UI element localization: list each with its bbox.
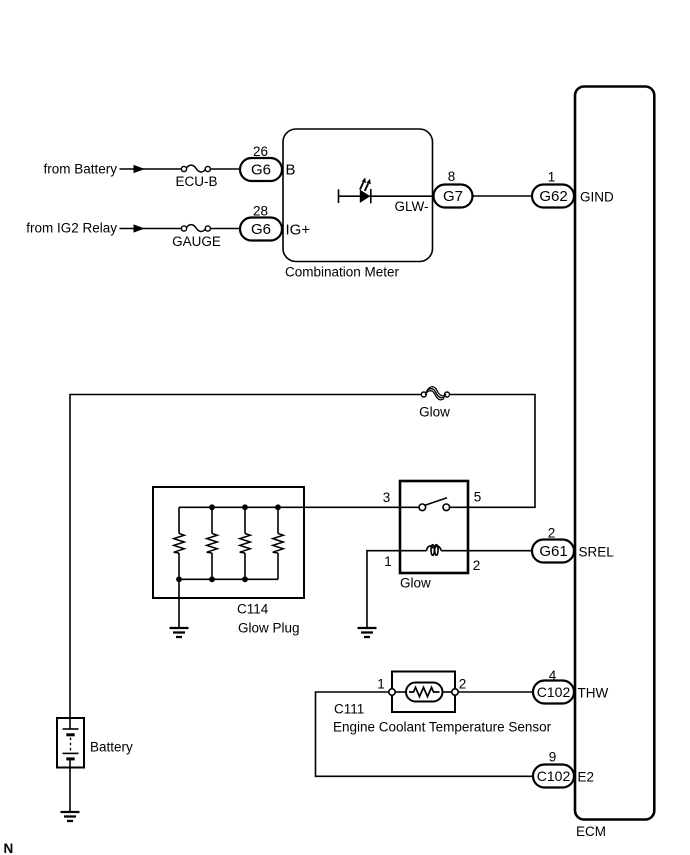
glow plug resistor 3 bbox=[240, 507, 251, 579]
glow plug box C114 bbox=[153, 487, 304, 598]
svg-text:2: 2 bbox=[473, 558, 481, 573]
connector G62 pin 1 bbox=[532, 185, 574, 208]
glow plug resistor 2 bbox=[207, 507, 218, 579]
connector C102 pin 4 bbox=[533, 681, 574, 704]
relay switch bbox=[400, 498, 468, 511]
wire from IG2 Relay lead with arrow bbox=[120, 224, 182, 232]
svg-text:G62: G62 bbox=[539, 188, 567, 205]
svg-text:2: 2 bbox=[548, 526, 556, 541]
wire fusible link to relay pin 5 bbox=[450, 395, 536, 508]
connector G61 pin 2 bbox=[532, 540, 574, 563]
svg-text:Engine Coolant Temperature Sen: Engine Coolant Temperature Sensor bbox=[333, 720, 552, 735]
svg-text:Combination Meter: Combination Meter bbox=[285, 265, 400, 280]
wire relay pin 2 to G61 bbox=[468, 550, 534, 552]
svg-text:G6: G6 bbox=[251, 162, 271, 179]
svg-text:Glow: Glow bbox=[419, 405, 450, 420]
thermistor element bbox=[389, 683, 458, 702]
junction dot bottom bus 2 bbox=[209, 576, 215, 582]
sensor box C111 bbox=[392, 672, 455, 713]
svg-text:SREL: SREL bbox=[579, 545, 615, 560]
glow plug resistor 4 bbox=[273, 507, 284, 579]
wire relay pin 1 to ground bbox=[367, 551, 400, 628]
svg-text:GAUGE: GAUGE bbox=[172, 234, 221, 249]
svg-text:GLW-: GLW- bbox=[394, 199, 428, 214]
svg-text:8: 8 bbox=[448, 169, 456, 184]
wire fuse to G6 pin 26 bbox=[210, 168, 241, 170]
ground battery bbox=[61, 812, 80, 821]
ground relay bbox=[358, 628, 377, 637]
svg-text:E2: E2 bbox=[578, 770, 595, 785]
ground glow plug bbox=[170, 628, 189, 637]
ECM box bbox=[575, 87, 654, 820]
svg-text:G61: G61 bbox=[539, 543, 567, 560]
svg-text:ECM: ECM bbox=[576, 824, 606, 839]
svg-text:Glow Plug: Glow Plug bbox=[238, 621, 300, 636]
svg-text:ECU-B: ECU-B bbox=[175, 174, 217, 189]
wire glow plug bus to relay pin 3 bbox=[179, 506, 400, 508]
junction dot top bus 2 bbox=[209, 504, 215, 510]
svg-text:C114: C114 bbox=[237, 602, 269, 617]
svg-text:3: 3 bbox=[383, 490, 391, 505]
svg-text:1: 1 bbox=[377, 677, 385, 692]
svg-text:1: 1 bbox=[384, 554, 392, 569]
relay coil bbox=[400, 545, 468, 556]
svg-text:28: 28 bbox=[253, 204, 268, 219]
svg-text:5: 5 bbox=[474, 490, 482, 505]
fusible link Glow bbox=[421, 387, 449, 400]
fuse ECU-B bbox=[181, 165, 210, 172]
svg-text:C102: C102 bbox=[537, 768, 571, 784]
junction dot bottom bus 1 bbox=[176, 576, 182, 582]
svg-text:Glow: Glow bbox=[400, 576, 431, 591]
svg-text:26: 26 bbox=[253, 144, 268, 159]
wire sensor pin 2 to THW bbox=[458, 691, 535, 693]
connector G6 pin 28 bbox=[240, 218, 282, 241]
svg-text:THW: THW bbox=[578, 686, 609, 701]
glow plug resistor 1 bbox=[174, 507, 185, 579]
svg-text:B: B bbox=[286, 162, 296, 179]
wire glow plug to ground bbox=[178, 579, 180, 627]
fuse GAUGE bbox=[181, 225, 210, 232]
glow relay box bbox=[400, 481, 468, 573]
svg-text:GIND: GIND bbox=[580, 190, 614, 205]
svg-text:C111: C111 bbox=[334, 702, 364, 717]
svg-text:Battery: Battery bbox=[90, 740, 133, 755]
connector G7 pin 8 bbox=[434, 185, 473, 208]
combination meter box bbox=[283, 129, 433, 262]
connector G6 pin 26 bbox=[240, 158, 282, 181]
junction dot top bus 4 bbox=[275, 504, 281, 510]
wire fuse to G6 pin 28 bbox=[210, 228, 241, 230]
svg-text:4: 4 bbox=[549, 668, 557, 683]
battery bbox=[57, 718, 84, 768]
junction dot bottom bus 3 bbox=[242, 576, 248, 582]
svg-text:from Battery: from Battery bbox=[43, 162, 117, 177]
connector C102 pin 9 bbox=[533, 765, 574, 788]
glow plug bottom bus bbox=[179, 578, 278, 580]
svg-text:IG+: IG+ bbox=[286, 222, 311, 239]
svg-text:9: 9 bbox=[549, 750, 557, 765]
svg-text:2: 2 bbox=[459, 677, 467, 692]
wire G7 to G62 bbox=[473, 195, 535, 197]
svg-text:C102: C102 bbox=[537, 684, 571, 700]
wire sensor pin 1 to E2 bbox=[316, 692, 535, 776]
svg-text:1: 1 bbox=[548, 169, 556, 184]
svg-text:G6: G6 bbox=[251, 221, 271, 238]
svg-text:from IG2 Relay: from IG2 Relay bbox=[26, 220, 117, 235]
wire from Battery lead with arrow bbox=[120, 165, 182, 173]
LED indicator lamp bbox=[339, 178, 433, 204]
svg-text:N: N bbox=[4, 841, 14, 855]
wire battery to ground bbox=[69, 768, 71, 812]
junction dot top bus 3 bbox=[242, 504, 248, 510]
wire battery to glow fusible link bbox=[70, 395, 422, 719]
svg-text:G7: G7 bbox=[443, 188, 463, 205]
